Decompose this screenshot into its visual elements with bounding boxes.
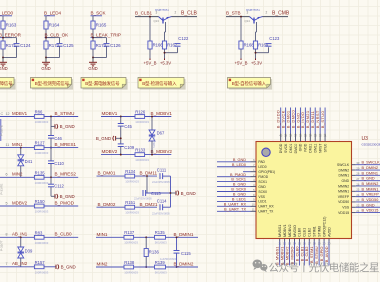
resistor R134: [125, 169, 139, 183]
svg-text:UART_TX: UART_TX: [258, 210, 274, 214]
junction N1: [146, 175, 148, 177]
svg-text:STIMU: STIMU: [317, 225, 321, 237]
power port +5.3V t1: [160, 59, 171, 66]
watermark logo and text: [252, 260, 379, 275]
svg-text:B型-绝缘故障信号: B型-绝缘故障信号: [0, 80, 13, 87]
capacitor C110: [48, 161, 65, 166]
power port B_GND L6: [56, 264, 76, 269]
rail C115 bottom: [176, 253, 178, 267]
junction C115 bottom: [176, 266, 178, 268]
svg-text:AB_IN2: AB_IN2: [12, 261, 28, 266]
wire branch to C124: [3, 38, 17, 44]
svg-text:B_CLB1: B_CLB1: [135, 11, 153, 16]
svg-text:MDBV1: MDBV1: [283, 225, 287, 237]
U3 left pin 7 LED0: [217, 163, 267, 169]
svg-text:MIN2: MIN2: [97, 262, 108, 267]
resistor R167: [162, 41, 177, 49]
svg-text:2: 2: [175, 11, 177, 15]
net label B_LED0: [0, 11, 14, 16]
net label B_DM02: [97, 202, 126, 207]
svg-text:5K1/0603: 5K1/0603: [155, 270, 167, 274]
pin stub AB_IN1: [0, 232, 34, 238]
svg-text:DM01: DM01: [289, 144, 293, 153]
svg-text:B_CLB_OK: B_CLB_OK: [45, 33, 70, 38]
wire B_LED0 to resistor: [2, 16, 4, 21]
svg-text:C114: C114: [157, 199, 167, 204]
svg-text:B_VDD15: B_VDD15: [362, 209, 379, 213]
wire C113 to rail: [146, 192, 171, 194]
svg-text:B_GND: B_GND: [61, 265, 76, 270]
power port +5.3V t2: [251, 59, 262, 66]
svg-text:B_CLB: B_CLB: [181, 11, 198, 17]
wire D41 top: [20, 148, 22, 155]
U3 left pin 5 SCK0: [217, 188, 267, 194]
power port B_GND N: [171, 191, 196, 196]
resistor R175: [91, 41, 107, 49]
net label B_STIMU: [55, 111, 75, 116]
U3 top pin 32 NRST: [315, 108, 322, 153]
U3 top pin 38 DM01: [285, 108, 292, 153]
ground col1: [0, 58, 8, 71]
svg-text:8: 8: [6, 233, 8, 237]
svg-text:B_CLB0: B_CLB0: [55, 232, 73, 237]
svg-text:GD32E230C8T6: GD32E230C8T6: [362, 143, 380, 147]
net label B_MDBV1: [145, 111, 172, 117]
U3 right pin 28 DMIN1: [339, 171, 380, 177]
svg-text:C109: C109: [124, 145, 135, 150]
junction D67 top: [151, 116, 153, 118]
svg-text:B_GND: B_GND: [362, 203, 375, 207]
svg-text:U3: U3: [362, 136, 369, 142]
svg-text:B_GND: B_GND: [233, 183, 246, 187]
value U3: [362, 143, 380, 147]
svg-text:22uF/35V/0805: 22uF/35V/0805: [152, 180, 170, 184]
svg-text:B_STU0: B_STU0: [320, 111, 325, 129]
svg-text:100R/0603: 100R/0603: [35, 210, 49, 214]
svg-text:DMIN1: DMIN1: [339, 174, 350, 178]
capacitor C114: [152, 199, 170, 216]
svg-text:R168: R168: [244, 43, 255, 48]
wire C111 to rail: [163, 175, 171, 177]
svg-text:B_SCK1: B_SCK1: [231, 178, 246, 182]
svg-text:B_SWCLK: B_SWCLK: [362, 161, 380, 165]
junction M gnd: [120, 137, 122, 139]
U3 left pin 4 SCK1: [217, 178, 267, 184]
net label B_MDBV2: [145, 149, 172, 154]
net label B_DM11: [135, 171, 157, 177]
pin stub MDBV2: [0, 200, 34, 206]
net label B_CLB0: [55, 232, 73, 237]
capacitor C123: [266, 36, 280, 46]
svg-text:R126: R126: [135, 109, 146, 114]
svg-text:100R/0603: 100R/0603: [125, 211, 139, 215]
net label B_PMOD: [55, 200, 75, 205]
resistor R138: [124, 260, 138, 274]
wire C112 to gnd: [50, 187, 52, 196]
svg-text:B_MRES1: B_MRES1: [55, 142, 77, 147]
svg-text:10: 10: [252, 203, 255, 207]
svg-text:B_DM02: B_DM02: [98, 202, 116, 207]
svg-text:B_LEAK_TRIP: B_LEAK_TRIP: [91, 33, 121, 38]
svg-text:DM21: DM21: [309, 144, 313, 153]
svg-text:100R/0603: 100R/0603: [125, 179, 139, 183]
U3 left pin 1 GPIO(PB1): [243, 168, 275, 174]
svg-text:R133: R133: [135, 148, 146, 153]
wire R163 to node: [2, 29, 4, 38]
junction rail L2: [50, 147, 52, 149]
capacitor C126: [104, 43, 122, 48]
resistor R83: [34, 230, 48, 245]
svg-text:MIN1: MIN1: [97, 232, 108, 237]
wire node to R173: [45, 38, 47, 41]
resistor R164: [44, 21, 60, 29]
resistor R86: [34, 110, 48, 125]
svg-text:22uF/35V/0805: 22uF/35V/0805: [134, 197, 152, 201]
U3 left pin 6 PAD: [217, 158, 266, 164]
svg-text:C115: C115: [181, 251, 191, 256]
U3 bottom pin 19 STIMU: [314, 225, 321, 265]
U3 right pin 30 SWCLK: [337, 161, 380, 167]
svg-text:UART_RX: UART_RX: [258, 205, 274, 209]
svg-text:100R/0603: 100R/0603: [35, 241, 49, 245]
power port +5V_B t1: [143, 59, 156, 66]
resistor R135b: [155, 230, 168, 244]
wire to net B_MRES1: [44, 147, 78, 149]
U3 top pin 31 STU0: [320, 108, 327, 153]
svg-text:+5.3V: +5.3V: [251, 61, 262, 66]
wire base pulldown: [149, 17, 151, 41]
pin stub AB_IN2: [0, 261, 34, 267]
svg-text:C124: C124: [20, 43, 31, 48]
net label B_CLB: [172, 11, 198, 17]
svg-text:C46: C46: [54, 136, 62, 141]
net label B_CMB: [263, 11, 290, 17]
svg-text:SVCK: SVCK: [284, 143, 288, 153]
U3 right pin 27 GND: [342, 177, 380, 183]
resistor R137: [124, 230, 138, 244]
svg-text:B_VDD50: B_VDD50: [362, 198, 379, 202]
svg-text:DVDD: DVDD: [279, 143, 283, 153]
pin stub MIN2: [0, 172, 34, 178]
svg-text:STU0: STU0: [323, 144, 327, 153]
wire B_GND stub L1: [51, 125, 55, 127]
svg-text:C110: C110: [54, 161, 64, 166]
note box 5: [228, 78, 273, 90]
svg-text:MDBV1: MDBV1: [12, 111, 28, 116]
svg-text:R83: R83: [35, 230, 43, 235]
svg-text:B_PMOD: B_PMOD: [230, 173, 246, 177]
svg-text:22uF/35V/0805: 22uF/35V/0805: [152, 211, 170, 215]
svg-text:B_MDBV2: B_MDBV2: [151, 149, 173, 154]
wire C46 to row L2: [50, 138, 52, 147]
svg-text:C112: C112: [54, 184, 64, 189]
svg-text:MVDIO: MVDIO: [293, 225, 297, 237]
pin number 2: [175, 11, 177, 15]
transistor Q13: [154, 8, 172, 24]
svg-text:GND: GND: [258, 185, 266, 189]
svg-text:MDBV2: MDBV2: [288, 225, 292, 237]
svg-text:100R/0603: 100R/0603: [35, 151, 49, 155]
svg-text:B_UART_TX: B_UART_TX: [224, 207, 246, 211]
svg-text:B_AVDD: B_AVDD: [324, 246, 329, 262]
svg-text:MVBS1: MVBS1: [278, 225, 282, 237]
svg-text:CLB2: CLB2: [308, 228, 312, 237]
svg-text:5: 5: [6, 201, 8, 205]
svg-text:LED1: LED1: [258, 200, 266, 204]
U3 bottom pin 11 MVBS1: [275, 225, 282, 266]
svg-text:P-33/7E: P-33/7E: [0, 184, 4, 195]
capacitor C109: [118, 144, 135, 150]
wire cap branch: [177, 47, 179, 53]
wire branch to C125: [46, 38, 60, 44]
resistor R166: [148, 41, 163, 49]
svg-text:SCK1: SCK1: [258, 180, 267, 184]
U3 bottom pin 14 MVDIO: [289, 225, 296, 266]
wire node to R175: [92, 38, 94, 41]
resistor R136: [144, 249, 159, 257]
svg-text:B_DMIN1: B_DMIN1: [362, 171, 378, 175]
svg-text:100R/0603: 100R/0603: [135, 120, 149, 124]
svg-text:GND: GND: [299, 143, 303, 151]
wire to net B_PMOD: [44, 205, 78, 207]
net label B_LED4: [44, 11, 62, 16]
svg-text:公众号丨光伏电储能之星: 公众号丨光伏电储能之星: [269, 261, 380, 274]
resistor R163: [1, 21, 17, 29]
net label B_STB: [226, 11, 250, 17]
svg-text:GND: GND: [0, 66, 8, 71]
net label B_DMIN1: [166, 232, 199, 238]
svg-text:100R/0603: 100R/0603: [35, 181, 49, 185]
resistor R133: [135, 148, 149, 162]
net label B_DMIN2: [166, 262, 199, 268]
power port B_GND M: [96, 136, 121, 141]
left vertical text 3: [0, 184, 4, 195]
U3 right pin 29 DMIN2: [339, 166, 380, 172]
svg-text:B_DMIN2: B_DMIN2: [174, 262, 194, 267]
capacitor C115: [160, 251, 191, 261]
svg-text:12: 12: [6, 112, 10, 116]
U3 bottom pin 17 CLB2: [304, 228, 311, 266]
wire D67 top: [151, 117, 153, 131]
wire emitter down: [256, 22, 257, 41]
note box 2: [31, 78, 74, 90]
capacitor C125: [57, 43, 75, 48]
svg-text:CLB0: CLB0: [298, 228, 302, 237]
U3 right pin 23 VDD50: [338, 198, 380, 204]
connector edge: [0, 119, 2, 141]
U3 pin1 circle: [262, 148, 270, 156]
net label B_MRES2: [55, 172, 77, 177]
capacitor C124: [14, 43, 32, 48]
junction col2: [45, 37, 47, 39]
svg-text:R150: R150: [35, 199, 46, 204]
svg-text:B_LED0: B_LED0: [0, 11, 14, 16]
op-amp U3 body: [256, 142, 352, 239]
rail right upper: [170, 176, 172, 207]
svg-text:R135: R135: [35, 170, 46, 175]
svg-text:B_VREFP: B_VREFP: [362, 193, 380, 197]
junction rail mid: [170, 192, 172, 194]
junction col1: [2, 37, 4, 39]
svg-text:P-33/7E: P-33/7E: [0, 125, 4, 136]
svg-text:Q14: Q14: [245, 19, 251, 23]
svg-text:R163: R163: [6, 23, 17, 28]
wire P1 mid: [134, 236, 155, 238]
U3 bottom pin 13 MDBV2: [284, 225, 291, 266]
note box 1: [0, 78, 16, 90]
svg-text:B_GND: B_GND: [233, 193, 246, 197]
U3 right pin 25 MMIN1: [338, 187, 380, 193]
svg-text:NRST: NRST: [318, 144, 322, 153]
svg-text:C113: C113: [151, 191, 161, 196]
U3 top pin 37 DMC0: [290, 108, 297, 154]
U3 top pin 33 DM11: [310, 108, 317, 153]
net label B_DM01: [97, 171, 126, 177]
svg-text:R151: R151: [125, 200, 136, 205]
wire to net B_CLB0: [44, 236, 78, 238]
resistor R165: [91, 21, 107, 29]
svg-text:VDD15: VDD15: [338, 211, 349, 215]
net label B_CLB_OK: [45, 33, 70, 38]
capacitor C45: [118, 124, 133, 130]
wire D67 bottom: [151, 141, 153, 155]
U3 left pin 3 GND: [217, 183, 266, 189]
svg-text:B_DM11: B_DM11: [140, 171, 158, 176]
net label MIN1: [96, 232, 124, 238]
svg-text:B_CMB: B_CMB: [272, 11, 290, 17]
U3 top pin 36 GND: [295, 108, 302, 152]
left vertical text 1: [0, 125, 4, 136]
svg-text:C125: C125: [63, 43, 74, 48]
svg-text:B_DMIN2: B_DMIN2: [362, 166, 378, 170]
svg-text:+5V_B: +5V_B: [143, 61, 156, 66]
note box 3: [81, 78, 128, 90]
svg-text:MMIN2: MMIN2: [338, 184, 349, 188]
svg-text:IVDD: IVDD: [304, 143, 308, 152]
svg-text:11: 11: [252, 208, 255, 212]
U3 bottom pin 18 STIM1: [309, 226, 316, 265]
svg-text:DMC0: DMC0: [294, 144, 298, 154]
svg-text:C: C: [1, 112, 4, 116]
resistor R173: [44, 41, 60, 49]
wire C109 down: [120, 147, 122, 155]
U3 left pin 8 VSS: [217, 193, 266, 199]
resistor R168: [239, 41, 254, 49]
U3 top pin 34 DM21: [305, 108, 312, 153]
wire to net B_MRES2: [44, 176, 78, 178]
svg-text:B_SCK: B_SCK: [91, 11, 107, 16]
svg-text:B型-自检信号输入: B型-自检信号输入: [232, 80, 267, 87]
pin number 3: [247, 11, 249, 15]
ground col2: [41, 58, 50, 71]
svg-text:MMIN1: MMIN1: [338, 190, 349, 194]
net label B_SCK: [91, 11, 107, 16]
svg-text:B_GND: B_GND: [60, 124, 75, 129]
power port B_GND L3: [51, 194, 75, 199]
U3 left pin 11 UART_TX: [217, 207, 274, 213]
pin number 3: [156, 11, 158, 15]
capacitor C46: [48, 136, 63, 141]
junction L3: [50, 176, 52, 178]
svg-text:MDBV1: MDBV1: [102, 111, 118, 116]
U3 bottom pin 20 GPIO(PC12): [319, 217, 326, 266]
svg-text:PAD: PAD: [258, 160, 265, 164]
wire rail to C110: [50, 148, 52, 161]
svg-text:MIN2: MIN2: [12, 172, 23, 177]
capacitor C113: [134, 190, 161, 201]
pin number 2: [266, 11, 268, 15]
wire C114 to rail: [163, 206, 171, 208]
resistor R127: [34, 141, 48, 156]
svg-text:B_MRES2: B_MRES2: [55, 172, 77, 177]
svg-text:B_DMIN1: B_DMIN1: [174, 232, 194, 237]
wire C112 branch: [50, 177, 52, 184]
svg-text:MDBV2: MDBV2: [12, 200, 28, 205]
svg-text:11: 11: [6, 143, 10, 147]
wire R136 bottom: [145, 257, 147, 268]
wire C45 branch: [120, 117, 122, 124]
junction D67 bottom: [151, 154, 153, 156]
svg-text:FMOD: FMOD: [258, 175, 268, 179]
svg-text:MMBT5551: MMBT5551: [246, 8, 260, 12]
junction P1: [145, 236, 147, 238]
junction col3: [92, 37, 94, 39]
svg-text:B_PMOD: B_PMOD: [55, 200, 75, 205]
svg-text:Q13: Q13: [154, 19, 160, 23]
svg-text:GND: GND: [41, 66, 50, 71]
U3 bottom pin 20 AVDD: [324, 227, 331, 266]
svg-text:MIN1: MIN1: [12, 142, 23, 147]
diode D39: [18, 247, 33, 258]
pin stub MDBV1: [0, 111, 34, 117]
svg-text:B型-漏电触发信号: B型-漏电触发信号: [85, 80, 120, 87]
ground col3: [88, 58, 97, 71]
diode D41: [18, 155, 33, 166]
wire node to R171: [2, 38, 4, 41]
svg-text:R137: R137: [124, 230, 135, 235]
capacitor C122: [175, 36, 189, 46]
wire base pulldown: [240, 17, 242, 41]
wire B_LED4 to resistor: [45, 16, 47, 21]
svg-text:SCK0: SCK0: [258, 190, 267, 194]
svg-text:R166: R166: [153, 43, 164, 48]
net label B_LEAK_TRIP: [91, 33, 121, 38]
wire R157 to gnd: [44, 266, 56, 268]
net label B_EEROR: [0, 33, 22, 38]
junction t2: [240, 16, 242, 18]
wire R164 to node: [45, 29, 47, 38]
wire to ground join: [45, 46, 59, 58]
svg-text:100R/0603: 100R/0603: [35, 120, 49, 124]
junction t1: [149, 16, 151, 18]
U3 left pin 10 UART_RX: [217, 202, 275, 208]
wire P2 mid: [134, 266, 155, 268]
svg-text:7: 7: [6, 262, 8, 266]
net label B_DM21: [135, 202, 158, 207]
svg-text:P-33/7T: P-33/7T: [0, 240, 4, 251]
wires to power: [150, 49, 178, 59]
U3 left pin 9 LED1: [217, 198, 267, 204]
wire R136 top: [145, 237, 147, 248]
wire to ground join: [92, 46, 106, 58]
svg-text:B_UART_RX: B_UART_RX: [224, 202, 247, 206]
svg-text:C126: C126: [110, 43, 121, 48]
junction P2: [145, 266, 147, 268]
svg-text:B_GND: B_GND: [96, 136, 111, 141]
diode D67: [149, 130, 165, 148]
svg-text:B_DM01: B_DM01: [98, 171, 116, 176]
net label MIN2: [96, 262, 124, 268]
